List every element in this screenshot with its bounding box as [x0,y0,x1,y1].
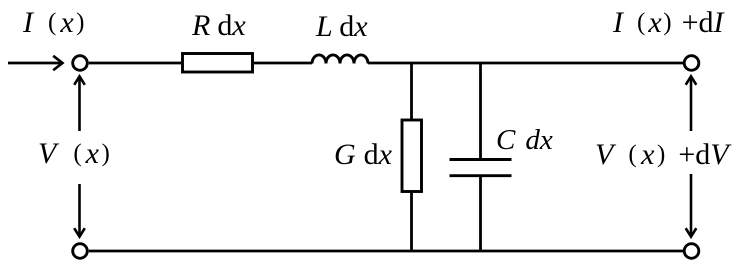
capacitor C dx bottom plate [450,174,512,177]
current input arrow [8,56,63,70]
wire: top-left circle to resistor [89,62,181,65]
label V(x)+dV right [595,140,729,170]
label I(x) top-left [23,8,84,38]
wire: C branch vertical upper lead [479,63,482,160]
V(x) arrow left: upper segment with up arrowhead [74,76,85,131]
label G dx [334,140,392,170]
label V(x) left [38,139,110,169]
node: bottom-right terminal circle [684,244,699,259]
capacitor C dx top plate [450,158,512,161]
label R dx [192,11,246,41]
node: bottom-left terminal circle [73,244,88,259]
node: top-right terminal circle [684,56,699,71]
inductor L dx (series coil) [312,55,368,64]
wire: G box down to bottom wire [410,191,413,251]
label I(x)+dI top-right [613,8,724,38]
wire: C branch vertical lower lead [479,176,482,251]
label C dx [496,126,553,155]
V(x) arrow left: lower segment with down arrowhead [74,184,85,237]
resistor R dx (series) [183,54,253,73]
V(x)+dV arrow right: lower segment with down arrowhead [686,174,697,237]
label L dx [316,12,368,42]
wire: G branch vertical (top wire down to G box) [410,63,413,121]
resistor G dx (shunt, vertical box) [402,120,422,192]
wire: inductor to top-right terminal [368,62,684,65]
V(x)+dV arrow right: upper segment with up arrowhead [686,76,697,131]
wire: resistor to inductor [254,62,312,65]
node: top-left terminal circle [73,56,88,71]
wire: bottom rail [89,250,685,253]
